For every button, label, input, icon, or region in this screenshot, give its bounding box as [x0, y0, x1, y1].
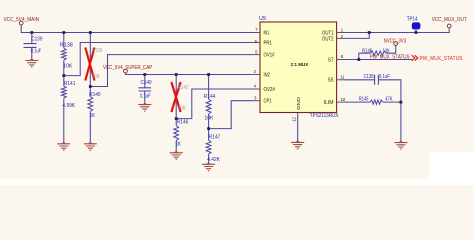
svg-text:47K: 47K	[385, 96, 393, 102]
svg-text:PW_MUX_STATUS: PW_MUX_STATUS	[370, 55, 410, 61]
svg-text:ILIM: ILIM	[324, 100, 334, 106]
svg-text:1K: 1K	[176, 142, 182, 148]
svg-text:IN1: IN1	[264, 30, 270, 36]
svg-text:0.1uF: 0.1uF	[31, 48, 42, 54]
svg-text:NVCC_3V3: NVCC_3V3	[384, 38, 406, 44]
svg-text:10: 10	[341, 97, 346, 102]
svg-text:R148: R148	[362, 48, 372, 54]
svg-text:10K: 10K	[63, 63, 73, 69]
svg-text:VCC_5V4_MAIN: VCC_5V4_MAIN	[4, 17, 40, 23]
svg-text:2:1 MUX: 2:1 MUX	[291, 62, 309, 67]
svg-text:R145: R145	[359, 96, 369, 102]
svg-text:PR1: PR1	[264, 40, 273, 46]
svg-text:R142: R142	[178, 85, 189, 91]
svg-text:C138: C138	[364, 74, 374, 80]
svg-text:11: 11	[340, 75, 345, 80]
svg-text:12: 12	[292, 116, 297, 121]
svg-text:10K: 10K	[204, 115, 214, 121]
svg-text:0.1uF: 0.1uF	[140, 93, 151, 99]
svg-text:VCC_MUX_OUT: VCC_MUX_OUT	[432, 17, 468, 23]
svg-text:10K: 10K	[383, 48, 390, 54]
svg-text:4.99K: 4.99K	[62, 103, 75, 109]
svg-text:OUT2: OUT2	[322, 36, 334, 42]
svg-text:CP1: CP1	[264, 99, 272, 105]
svg-text:TPS2113RUX: TPS2113RUX	[310, 113, 339, 119]
svg-text:PW_MUX_STATUS: PW_MUX_STATUS	[420, 56, 463, 62]
svg-text:1K: 1K	[90, 113, 96, 119]
svg-text:GND: GND	[296, 96, 302, 109]
svg-text:VCC_5V4_SUPER_CAP: VCC_5V4_SUPER_CAP	[103, 65, 153, 71]
svg-text:R138: R138	[60, 43, 73, 49]
svg-text:R139: R139	[92, 48, 103, 54]
svg-text:TP14: TP14	[407, 16, 418, 22]
svg-text:0.1uF: 0.1uF	[379, 74, 390, 80]
svg-text:ST: ST	[328, 57, 334, 63]
svg-text:4.42K: 4.42K	[207, 157, 220, 163]
svg-text:C140: C140	[141, 80, 152, 86]
svg-text:10K: 10K	[92, 74, 100, 80]
svg-text:SS: SS	[328, 78, 334, 84]
svg-text:10K: 10K	[178, 106, 186, 112]
svg-text:IN2: IN2	[264, 72, 271, 78]
svg-text:U9: U9	[259, 16, 266, 22]
svg-text:R146: R146	[177, 120, 189, 126]
svg-text:OV2#: OV2#	[264, 87, 276, 93]
svg-text:C139: C139	[31, 37, 42, 43]
svg-text:R140: R140	[89, 92, 101, 98]
svg-text:OV1#: OV1#	[264, 53, 275, 59]
svg-text:R147: R147	[209, 135, 221, 141]
svg-text:R141: R141	[64, 81, 76, 87]
svg-text:R144: R144	[204, 94, 216, 100]
